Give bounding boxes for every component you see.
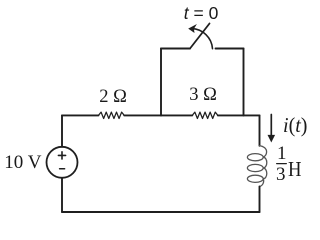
- resistor R1 2-ohm zigzag: [99, 112, 125, 118]
- label i(t): [283, 113, 307, 138]
- switch S1 arc arrowhead: [188, 24, 197, 33]
- current arrow i(t) head: [268, 135, 276, 143]
- resistor R2 3-ohm zigzag: [192, 112, 218, 118]
- switch S1 motion arc: [192, 29, 213, 49]
- wire: switch branch left vertical riser: [160, 49, 162, 116]
- wire: switch branch top-left horizontal to switch left contact: [161, 48, 190, 50]
- wire: right vertical from top wire down to inductor: [259, 115, 261, 145]
- label 1 (numerator): [277, 143, 287, 165]
- inductor L1 coil (1/3 H): [247, 146, 266, 187]
- wire: switch branch right vertical drop: [243, 49, 245, 116]
- voltage source V1 circle: [47, 147, 78, 178]
- label 10 V: [4, 152, 41, 174]
- wire: left vertical from source top up to top-left corner: [61, 116, 63, 147]
- wire: left vertical from bottom corner up to source bottom: [61, 178, 63, 212]
- wire: between 2-ohm resistor and 3-ohm resistor (through switch tap node): [124, 114, 192, 116]
- voltage source plus sign: [58, 152, 65, 159]
- wire: from 3-ohm resistor to top-right corner: [218, 114, 260, 116]
- voltage source minus sign: [60, 168, 65, 170]
- wire: bottom horizontal return: [62, 211, 260, 213]
- switch S1 blade (opens at t=0): [190, 24, 210, 49]
- label 2 ohm: [99, 87, 127, 108]
- label 3 ohm: [189, 85, 217, 106]
- label 3 (denominator): [276, 164, 286, 186]
- current arrow i(t) shaft: [270, 115, 272, 137]
- wire: switch right contact to top-right horizontal: [216, 48, 244, 50]
- label t = 0: [184, 3, 219, 24]
- fraction bar of 1/3: [277, 163, 287, 165]
- wire: below inductor down to bottom-right corner: [259, 186, 261, 212]
- wire: top-left horizontal from source top corner to 2-ohm resistor: [62, 114, 99, 116]
- label H (henries): [288, 157, 301, 182]
